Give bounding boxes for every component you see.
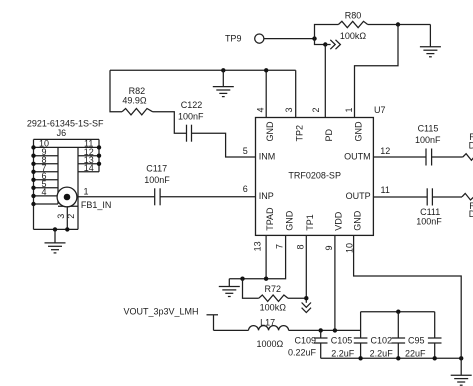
test point TP9 [225,34,264,44]
node C105 bottom [358,356,362,360]
connector J6 pin dots left [31,145,35,206]
node VDD tap [333,328,337,332]
wire pin 13 (TPAD) down [265,235,267,278]
svg-text:GND: GND [353,121,363,142]
svg-text:C95: C95 [408,335,425,345]
svg-text:TRF0208-SP: TRF0208-SP [288,171,341,181]
wire elevated rail C105-C95 [361,311,435,313]
node ground tap [221,68,225,72]
resistor (partial, right edge bottom) [462,193,473,200]
wire pin 12 (OUTM) to C115 [373,156,426,158]
svg-text:PD: PD [324,128,334,141]
ground (bottom right) [451,358,472,385]
inductor L17 [249,318,289,350]
ground (J6) [45,229,66,253]
wire VOUT to L17 [214,329,249,331]
connector J6 pin dots right [97,145,101,166]
svg-text:C115: C115 [418,123,439,133]
svg-text:L17: L17 [260,318,275,328]
wire rail down to R82 [110,70,122,111]
connector J6 label [27,118,104,138]
wire J6 pin 1 to C117 [78,196,155,198]
node J6 pin3 junction [65,227,69,231]
svg-text:TP2: TP2 [295,125,305,142]
svg-text:D: D [469,209,473,219]
IC U7 body [256,105,386,236]
svg-text:4: 4 [255,107,265,112]
node pin4 junction [264,68,268,72]
wire rail to pin 4 [265,70,267,117]
node R72 junction [240,277,244,281]
node R80 right junction [396,22,400,26]
node ground junction [459,356,463,360]
svg-text:100nF: 100nF [144,175,170,185]
connector J6 pins 3 and 2 [56,206,76,229]
node C95 bottom [433,356,437,360]
svg-text:R80: R80 [345,11,362,21]
svg-text:VOUT_3p3V_LMH: VOUT_3p3V_LMH [123,306,198,316]
wire C117 to pin 6 (INP) [160,196,255,198]
capacitor C105 [331,312,368,359]
svg-text:100kΩ: 100kΩ [260,302,287,312]
wire C115 to edge resistor [432,156,463,158]
svg-text:TP1: TP1 [305,214,315,231]
svg-text:TP9: TP9 [225,34,242,44]
capacitor C122 [178,100,204,142]
ground (left of R72) [219,279,240,297]
svg-text:TPAD: TPAD [265,207,275,231]
node PD junction [323,42,327,46]
svg-text:100kΩ: 100kΩ [340,31,367,41]
net label R/D (cut, top) [469,132,473,151]
connector J6 pin numbers right [84,139,94,173]
wire pin 8 (TP1) down [305,235,307,302]
svg-text:0.22uF: 0.22uF [288,347,317,357]
capacitor C115 [415,123,441,165]
svg-text:2.2uF: 2.2uF [370,348,394,358]
svg-text:22uF: 22uF [405,348,426,358]
svg-text:49.9Ω: 49.9Ω [122,96,147,106]
svg-text:INP: INP [259,191,274,201]
node TP9 junction [312,36,316,40]
svg-text:100nF: 100nF [178,111,204,121]
node C109 top [319,328,323,332]
node C102 top [396,310,400,314]
node pin8/R72 junction [304,296,308,300]
svg-text:GND: GND [352,210,362,231]
svg-text:4: 4 [41,187,46,197]
svg-text:GND: GND [265,121,275,142]
net port VOUT_3p3V_LMH [123,306,218,330]
svg-text:10: 10 [344,243,354,253]
U7 pin names [259,121,371,231]
connector J6 pin numbers left [39,139,49,197]
wire pin 9 (VDD) down [334,235,336,330]
connector J6 coax center [57,187,77,207]
svg-text:VDD: VDD [334,211,344,231]
svg-text:3: 3 [284,107,294,112]
svg-text:R82: R82 [129,86,146,96]
node J6 ground tap [53,227,57,231]
svg-text:5: 5 [243,146,248,156]
wire C122 to pin 5 (INM) [192,133,256,157]
wire R80 to ground corner [368,24,431,26]
svg-text:2921-61345-1S-SF: 2921-61345-1S-SF [27,118,104,128]
svg-text:2: 2 [311,107,321,112]
off-page connector (right, TP9 net) [325,40,340,49]
ground (top right) [420,25,441,57]
svg-text:OUTP: OUTP [346,191,371,201]
svg-text:9: 9 [324,245,334,250]
svg-text:1: 1 [83,187,88,197]
svg-text:C102: C102 [370,335,392,345]
net label R/D (cut, bottom) [469,201,473,219]
svg-text:7: 7 [274,244,284,249]
capacitor C111 [416,188,442,226]
svg-text:3: 3 [56,214,66,219]
svg-text:R72: R72 [265,284,282,294]
wire GND rail (top left) [110,69,296,71]
capacitor C117 [144,164,170,206]
capacitor C95 [405,312,442,359]
wire C111 to edge resistor [432,196,462,198]
off-page connector (down, TP1 net) [302,303,311,313]
svg-text:C117: C117 [146,164,167,174]
svg-text:U7: U7 [374,105,386,115]
wire L17 to top rail [289,329,361,331]
svg-text:INM: INM [259,151,276,161]
svg-text:FB1_IN: FB1_IN [81,200,112,210]
svg-text:GND: GND [284,210,294,231]
connector J6 outline [34,139,100,229]
svg-text:100nF: 100nF [416,217,442,227]
svg-text:C109: C109 [294,335,316,345]
svg-text:13: 13 [252,241,262,251]
resistor R80 [338,11,367,41]
capacitor C102 [370,312,405,359]
svg-text:2: 2 [66,214,76,219]
resistor R72 [243,279,307,313]
svg-text:OUTM: OUTM [344,151,371,161]
svg-text:8: 8 [295,244,305,249]
wire rail to pin 3 [295,70,297,117]
wire J6 bottom [34,228,79,230]
wire PD junction to pin 2 [324,45,326,118]
wire pin 10 (GND) to ground [354,235,462,358]
wire TP9 junction jog to PD [315,39,326,45]
wire junction up to R80 [315,25,339,39]
U7 pin numbers [243,107,390,253]
wire TP9 to junction [264,38,315,40]
wire pin 11 (OUTP) to C111 [373,196,427,198]
svg-text:1: 1 [344,107,354,112]
node C102 bottom [396,356,400,360]
wire junction down to pin 1 [355,25,399,118]
svg-text:C105: C105 [331,335,353,345]
svg-text:D: D [469,140,473,150]
svg-text:2.2uF: 2.2uF [331,348,355,358]
svg-text:C122: C122 [181,100,203,110]
resistor R82 [122,86,152,115]
node pin13 junction [264,277,268,281]
wire pin 7 down and left [229,235,285,278]
svg-text:100nF: 100nF [415,135,441,145]
capacitor C109 [288,330,328,358]
svg-text:12: 12 [380,146,390,156]
wire R82 to C122 [153,112,187,134]
ground (top left) [213,70,234,96]
svg-text:11: 11 [381,185,390,195]
resistor (partial, right edge top) [463,154,473,161]
svg-text:6: 6 [243,184,248,194]
svg-text:1000Ω: 1000Ω [257,339,284,349]
svg-text:14: 14 [84,163,94,173]
svg-text:J6: J6 [57,128,67,138]
wire bottom rail [321,357,462,359]
